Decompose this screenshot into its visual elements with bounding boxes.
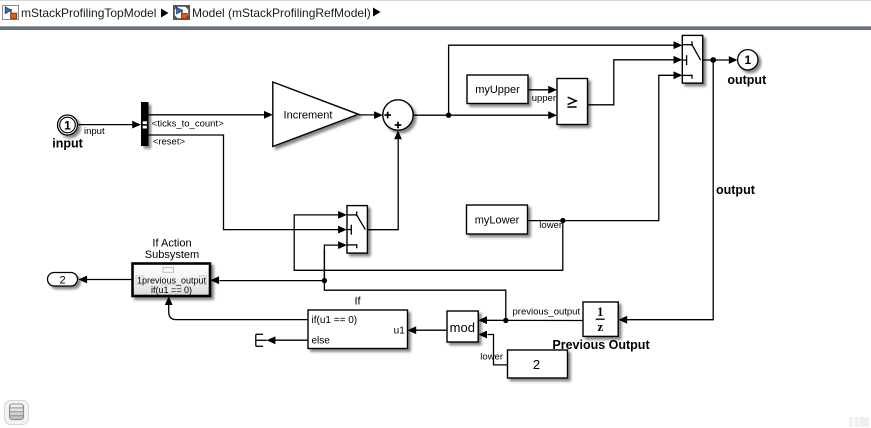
svg-text:1: 1 xyxy=(744,53,751,67)
svg-text:Subsystem: Subsystem xyxy=(145,249,199,261)
svg-text:input: input xyxy=(52,137,83,151)
svg-text:u1: u1 xyxy=(394,326,406,337)
svg-text:lower: lower xyxy=(480,352,503,363)
svg-text:Increment: Increment xyxy=(284,109,333,121)
svg-text:upper: upper xyxy=(532,93,556,104)
svg-text:output: output xyxy=(716,183,756,197)
svg-text:input: input xyxy=(84,126,105,137)
svg-text:else: else xyxy=(312,335,331,346)
svg-text:z: z xyxy=(598,320,604,334)
svg-text:previous_output: previous_output xyxy=(513,307,581,318)
svg-text:<ticks_to_count>: <ticks_to_count> xyxy=(152,118,224,129)
svg-text:output: output xyxy=(727,73,767,87)
svg-text:1: 1 xyxy=(597,305,603,319)
svg-text:lower: lower xyxy=(539,220,562,231)
svg-text:mod: mod xyxy=(450,320,475,335)
svg-text:if(u1 == 0): if(u1 == 0) xyxy=(151,285,192,295)
svg-text:myUpper: myUpper xyxy=(475,84,520,96)
svg-text:1: 1 xyxy=(64,118,71,132)
svg-text:2: 2 xyxy=(59,274,65,286)
svg-text:2: 2 xyxy=(533,357,540,372)
svg-text:myLower: myLower xyxy=(475,215,520,227)
svg-text:If Action: If Action xyxy=(152,238,191,250)
svg-text:if(u1 == 0): if(u1 == 0) xyxy=(312,315,358,326)
svg-text:Previous Output: Previous Output xyxy=(552,338,650,352)
svg-text:<reset>: <reset> xyxy=(153,137,186,148)
svg-text:If: If xyxy=(354,295,361,307)
